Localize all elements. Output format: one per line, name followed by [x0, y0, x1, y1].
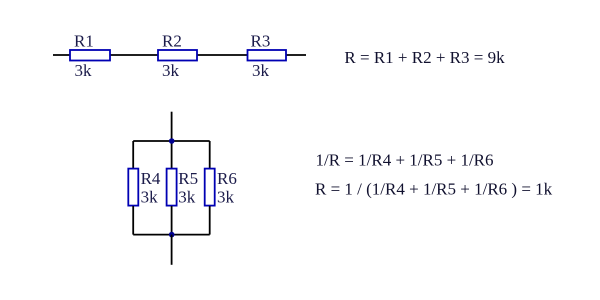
wire: R6 bottom lead [209, 206, 211, 235]
wire: series main horizontal wire [53, 54, 306, 56]
svg-text:R4: R4 [141, 169, 161, 188]
svg-text:3k: 3k [141, 188, 159, 207]
wire: R5 bottom lead [171, 206, 173, 235]
svg-text:1/R = 1/R4 + 1/R5 + 1/R6: 1/R = 1/R4 + 1/R5 + 1/R6 [316, 151, 494, 170]
svg-text:R6: R6 [217, 169, 237, 188]
wire: parallel top rail [133, 140, 210, 142]
svg-text:R5: R5 [178, 169, 198, 188]
resistor R4 [128, 169, 161, 207]
wire: parallel bottom rail [133, 234, 210, 236]
resistor R2 [158, 32, 197, 80]
wire: parallel bottom stub [171, 235, 173, 265]
wire: R4 bottom lead [132, 206, 134, 235]
node: bottom junction dot [169, 232, 175, 238]
wire: parallel top stub [171, 112, 173, 141]
svg-text:3k: 3k [75, 61, 93, 80]
wire: drop to R5 [171, 141, 173, 170]
svg-text:R1: R1 [74, 32, 94, 51]
resistor R3 [248, 32, 287, 80]
svg-text:R = R1 + R2 + R3 = 9k: R = R1 + R2 + R3 = 9k [344, 48, 505, 67]
svg-text:3k: 3k [162, 61, 180, 80]
resistor R1 [70, 32, 110, 80]
resistor R6 [205, 169, 237, 207]
svg-text:R2: R2 [162, 32, 182, 51]
svg-text:R = 1 / (1/R4 + 1/R5 + 1/R6 ): R = 1 / (1/R4 + 1/R5 + 1/R6 ) = 1k [315, 179, 553, 198]
svg-text:R3: R3 [251, 32, 271, 51]
wire: drop to R4 [132, 141, 134, 170]
node: top junction dot [169, 138, 175, 144]
svg-text:3k: 3k [252, 61, 270, 80]
svg-text:3k: 3k [178, 188, 196, 207]
svg-text:3k: 3k [217, 188, 235, 207]
wire: drop to R6 [209, 141, 211, 170]
resistor R5 [167, 169, 199, 207]
